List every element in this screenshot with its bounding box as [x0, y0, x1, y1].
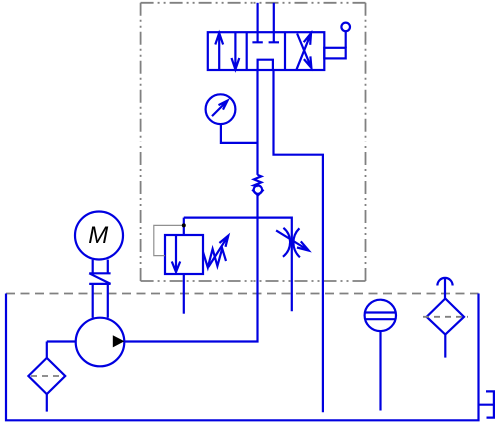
wire port B up: [273, 3, 275, 32]
breather cap arc: [437, 278, 452, 286]
valve center box blocked port A: [252, 32, 262, 42]
valve center box blocked port B: [269, 32, 279, 42]
wire P line valve to check valve: [256, 70, 258, 175]
breather screen dashes: [423, 316, 468, 318]
throttle valve arcs: [283, 228, 300, 257]
suction filter riser: [46, 342, 48, 358]
relief valve spring: [203, 249, 226, 268]
wire P line check valve to pump: [124, 195, 257, 342]
relief valve drain wire: [183, 274, 185, 314]
gauge connection wire: [221, 124, 258, 143]
electric motor M1: [75, 212, 123, 260]
breather filter diamond: [427, 299, 464, 335]
relief valve top port wire: [183, 218, 185, 235]
valve right box crossed arrow 1: [297, 33, 311, 69]
tank top (dashed line): [6, 293, 479, 295]
lever knob: [341, 23, 350, 32]
lever box: [324, 48, 345, 59]
wire relief to throttle header: [184, 218, 292, 312]
shaft break symbol: [89, 273, 110, 284]
valve left box up arrow: [215, 33, 223, 70]
motor shaft coupling lower: [93, 284, 108, 318]
filter screen dashes: [31, 375, 63, 377]
relief valve body: [165, 235, 203, 274]
level gauge lines: [365, 313, 396, 320]
pilot junction dot: [182, 223, 186, 227]
check valve ball: [254, 186, 262, 194]
relief valve flow arrow: [172, 235, 180, 272]
level gauge stem: [379, 331, 381, 410]
breather stem: [444, 279, 446, 299]
tank drain port: [479, 391, 494, 417]
valve right box crossed arrow 2: [297, 34, 311, 68]
throttle adjustment arrow: [276, 230, 309, 250]
manifold block boundary (dash-dot box): [141, 2, 253, 4]
level gauge: [365, 300, 396, 331]
pump flow triangle: [113, 335, 125, 347]
gauge needle: [212, 101, 228, 117]
suction filter diamond: [28, 358, 65, 394]
check valve seat: [252, 190, 263, 196]
pump P1: [76, 318, 125, 367]
filter dip tube: [46, 394, 48, 412]
valve left box down arrow: [232, 33, 240, 70]
pressure gauge: [206, 94, 236, 124]
motor shaft coupling upper: [93, 260, 108, 274]
relief valve pilot line: [154, 225, 184, 255]
wire port A up: [257, 3, 259, 32]
relief valve adjustment arrow: [208, 236, 228, 267]
valve position dividers: [247, 32, 285, 70]
svg-text:M: M: [88, 222, 108, 249]
valve center box P-T bridge: [258, 60, 273, 70]
tank outline: [6, 294, 479, 421]
pump inlet wire: [47, 340, 76, 342]
check valve spring: [254, 175, 261, 186]
wire T return line: [274, 70, 323, 412]
lever stem: [345, 31, 347, 48]
breather dip tube: [444, 335, 446, 358]
directional valve U1 body: [208, 32, 324, 70]
